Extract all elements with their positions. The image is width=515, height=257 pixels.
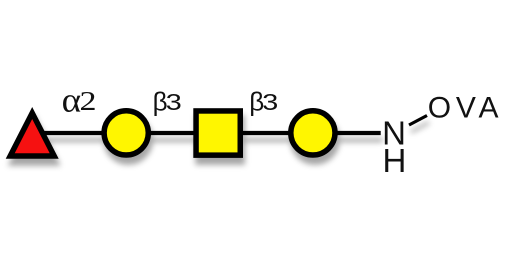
svg-text:3: 3 [166,89,182,115]
svg-text:H: H [383,142,407,179]
galactose circle 2 (yellow) [291,111,335,155]
wire Fuc-Gal [40,131,126,135]
fucose triangle (red) [10,113,54,156]
GalNAc square (yellow) [196,111,240,155]
galactose circle 1 (yellow) [104,111,148,155]
svg-text:α: α [62,81,82,120]
svg-text:2: 2 [80,86,97,116]
wire N-OVA [409,116,427,126]
wire Gal-GalNAc [126,131,218,135]
svg-text:OVA: OVA [428,92,504,125]
svg-text:3: 3 [262,89,278,115]
wire GalNAc-Gal2 [218,131,313,135]
wire Gal2-N [313,131,381,135]
